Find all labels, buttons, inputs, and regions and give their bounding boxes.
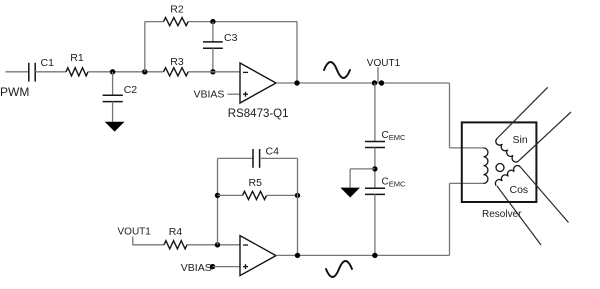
- wire CEMC middle lead: [374, 148, 376, 189]
- svg-text:R1: R1: [70, 52, 84, 64]
- wire R3 to opamp inverting input: [188, 71, 240, 73]
- node VBIAS bottom dot: [210, 264, 215, 269]
- sine wave symbol bottom: [326, 261, 352, 277]
- resistor R4: [164, 241, 187, 249]
- svg-text:C2: C2: [124, 84, 138, 96]
- wire feedback left vertical: [144, 22, 146, 72]
- node junction U2 output feedback: [295, 253, 300, 258]
- node junction R5 left: [215, 193, 220, 198]
- svg-text:R5: R5: [249, 177, 263, 189]
- inductor Cos winding: [495, 166, 520, 186]
- wire ground tap vertical: [349, 169, 351, 188]
- resistor R3: [164, 68, 189, 76]
- wire Sin lead upper: [497, 87, 548, 138]
- svg-text:VOUT1: VOUT1: [367, 58, 401, 69]
- resistor R1: [66, 68, 88, 76]
- svg-text:VOUT1: VOUT1: [118, 227, 152, 238]
- wire Cos lead upper: [520, 167, 568, 223]
- wire opamp U2 output: [276, 254, 450, 256]
- wire into resolver primary bottom: [450, 182, 484, 184]
- wire Cos lead lower: [497, 186, 541, 245]
- svg-text:C1: C1: [41, 57, 55, 69]
- ground below C2: [105, 122, 125, 132]
- inductor Sin winding: [496, 139, 519, 162]
- rotor circle: [496, 164, 504, 172]
- wire opamp U1 output: [276, 82, 450, 84]
- svg-text:VBIAS: VBIAS: [194, 88, 225, 100]
- svg-text:C4: C4: [266, 145, 280, 157]
- wire bottom right corner up: [449, 183, 451, 255]
- resistor R2: [164, 18, 189, 26]
- svg-text:R2: R2: [170, 4, 184, 16]
- inductor primary winding: [484, 148, 488, 184]
- node junction C3 top: [210, 19, 215, 24]
- svg-text:VBIAS: VBIAS: [181, 262, 212, 274]
- wire feedback right vertical top: [296, 22, 298, 83]
- wire C2 top lead: [112, 72, 114, 95]
- op-amp U1 RS8473-Q1: [240, 63, 276, 103]
- capacitor C2: [103, 95, 123, 101]
- svg-text:R3: R3: [170, 56, 184, 68]
- wire feedback left vertical bottom: [217, 158, 219, 244]
- wire R1 to R3: [88, 71, 164, 73]
- wire C4 right lead: [260, 157, 298, 159]
- wire ground tap horizontal: [350, 168, 375, 170]
- wire Sin lead lower: [519, 112, 572, 161]
- svg-text:Resolver: Resolver: [482, 209, 522, 220]
- node junction VOUT1 tap: [379, 80, 384, 85]
- wire top branch left: [145, 21, 164, 23]
- ground between CEMC caps: [340, 188, 360, 198]
- capacitor CEMC lower: [365, 188, 385, 194]
- op-amp U2: [240, 236, 276, 276]
- wire VBIAS to noninverting input: [228, 93, 241, 95]
- svg-text:PWM: PWM: [0, 85, 29, 99]
- wire top right corner down: [449, 83, 451, 148]
- capacitor CEMC upper: [365, 142, 385, 148]
- svg-text:C3: C3: [224, 32, 238, 44]
- svg-text:Cos: Cos: [510, 184, 529, 196]
- sine wave symbol top: [324, 62, 350, 78]
- wire CEMC branch upper lead: [374, 83, 376, 142]
- node junction C2 tap: [110, 69, 115, 74]
- svg-text:RS8473-Q1: RS8473-Q1: [228, 108, 289, 120]
- svg-text:R4: R4: [169, 226, 183, 238]
- wire C4 left lead: [218, 157, 254, 159]
- wire C3 top lead: [212, 22, 214, 42]
- node junction R5 right: [295, 193, 300, 198]
- node junction between CEMC caps: [372, 166, 377, 171]
- wire feedback right vertical bottom: [297, 158, 299, 255]
- node junction R2 feedback tap: [142, 69, 147, 74]
- wire R4 to opamp U2: [187, 244, 240, 246]
- wire VOUT1 tap stub: [377, 67, 379, 83]
- capacitor C3: [203, 42, 223, 48]
- wire top branch right: [188, 21, 297, 23]
- node junction U2 inverting input: [215, 242, 220, 247]
- node junction CEMC tap: [372, 80, 377, 85]
- node junction U1 output feedback: [294, 80, 299, 85]
- resistor R5: [243, 191, 267, 199]
- node junction CEMC bottom: [372, 253, 377, 258]
- resolver box: [462, 122, 537, 202]
- wire C2 bottom lead: [112, 102, 114, 122]
- wire VOUT1 bottom stub: [133, 237, 164, 245]
- capacitor C1: [29, 63, 35, 82]
- node junction R3 C3 opamp: [210, 69, 215, 74]
- capacitor C4: [253, 149, 260, 168]
- wire R5 left lead: [218, 194, 243, 196]
- wire C1 to R1: [35, 71, 66, 73]
- wire into resolver primary top: [450, 147, 484, 149]
- wire PWM input stub: [6, 71, 29, 73]
- wire VBIAS to U2 noninverting input: [213, 266, 240, 268]
- wire C3 bottom lead: [212, 48, 214, 72]
- wire R5 right lead: [267, 194, 298, 196]
- wire CEMC lower lead: [374, 194, 376, 255]
- svg-text:Sin: Sin: [513, 134, 528, 146]
